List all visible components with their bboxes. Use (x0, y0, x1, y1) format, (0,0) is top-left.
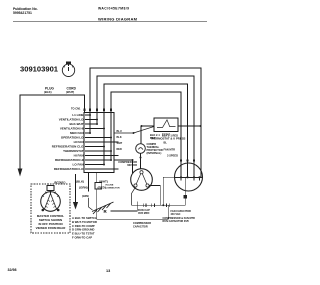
label cord colors (76, 180, 108, 190)
svg-text:309103901: 309103901 (20, 65, 59, 74)
node capacitor junction (162, 204, 164, 206)
selector switch terminals (42, 209, 45, 212)
inline connector (95, 183, 102, 190)
wire common return bottom (97, 205, 168, 219)
wire to wall receptacle with arrow (75, 174, 77, 203)
label fan motor (162, 134, 178, 158)
wire inline connector lead (96, 173, 98, 220)
svg-text:CAPACITOR: CAPACITOR (133, 225, 148, 228)
svg-text:13: 13 (106, 269, 110, 273)
connector pins above switch (84, 109, 112, 111)
svg-text:(BLK): (BLK) (44, 90, 52, 94)
svg-text:WAC/045E7M8/9: WAC/045E7M8/9 (98, 7, 129, 11)
svg-text:BL: BL (164, 141, 168, 145)
svg-text:RED: RED (117, 148, 122, 151)
svg-text:IN LINE: IN LINE (106, 184, 114, 186)
svg-text:35/5 MFD: 35/5 MFD (138, 211, 150, 215)
thermostat box (154, 118, 178, 132)
svg-text:440 VAC: 440 VAC (171, 213, 181, 216)
wire compressor R to capacitor (149, 186, 160, 206)
wire thermostat to overload (140, 126, 142, 144)
svg-text:WIRING DIAGRAM: WIRING DIAGRAM (98, 17, 138, 22)
svg-text:(WHT): (WHT) (66, 90, 74, 94)
label inline connector (106, 184, 120, 189)
wire thermostat left (142, 125, 155, 127)
svg-text:(INTERNAL): (INTERNAL) (147, 151, 162, 155)
switch terminal junction nodes (89, 114, 112, 166)
label compressor capacitor (133, 222, 151, 228)
legend wire color code (72, 216, 97, 240)
svg-text:VIEWED FROM REAR: VIEWED FROM REAR (36, 226, 67, 230)
svg-text:HI FAN: HI FAN (74, 154, 84, 158)
wire switch to thermostat (114, 127, 154, 134)
wire harness loop 1 (outermost) (90, 68, 201, 177)
svg-text:HI FAN: HI FAN (74, 140, 84, 144)
wire compressor S to capacitor (132, 187, 136, 205)
receptacle arrowhead (73, 202, 78, 210)
svg-text:BLK 2-1 RED: BLK 2-1 RED (162, 134, 178, 138)
thermostat contact symbol (157, 120, 176, 128)
plug arrowhead (18, 169, 23, 177)
node thermostat right junction (200, 125, 202, 127)
capacitor C1 line (132, 204, 186, 206)
label fan capacitor (163, 210, 196, 223)
svg-text:3 SPEED: 3 SPEED (167, 154, 178, 158)
svg-text:REFRIGERATION HI: REFRIGERATION HI (55, 158, 84, 162)
svg-text:VENTILATION HI: VENTILATION HI (60, 127, 84, 131)
svg-text:(GRN): (GRN) (79, 186, 88, 190)
selector switch pointer feathers (45, 200, 55, 207)
fan motor lead tags (180, 160, 195, 162)
wire harness loop 3 (104, 84, 188, 177)
capacitor C1 plates (143, 203, 169, 207)
svg-text:BLU: BLU (117, 130, 122, 133)
wire overload to compressor (140, 153, 142, 169)
svg-text:32/98: 32/98 (8, 268, 17, 272)
fan motor M (175, 163, 203, 191)
wire ground lead green (88, 173, 90, 192)
svg-text:OPERATION LO: OPERATION LO (61, 136, 84, 140)
wire harness loop 4 (111, 92, 181, 177)
selector switch pointer (45, 194, 57, 210)
svg-text:REFRIGERATION LO: REFRIGERATION LO (54, 167, 84, 171)
label plug cord (44, 87, 77, 95)
fan motor terminals (180, 176, 201, 178)
svg-text:TO CN1: TO CN1 (71, 107, 81, 111)
svg-text:LO FAN: LO FAN (73, 163, 84, 167)
label overload protector (147, 142, 163, 155)
svg-text:CONNECTOR: CONNECTOR (106, 187, 120, 189)
header rule (13, 21, 207, 23)
fan motor terminal stubs (181, 177, 200, 180)
fan motor terminal bar (175, 176, 203, 178)
svg-text:BLK-WHT: BLK-WHT (70, 122, 84, 126)
svg-text:F ORN-TO CAP: F ORN-TO CAP (72, 236, 92, 240)
timer icon (62, 62, 74, 77)
svg-text:RED: RED (150, 136, 156, 140)
svg-text:FAN MTR: FAN MTR (163, 148, 175, 152)
wire harness loop 2 (97, 76, 194, 177)
switch terminal wires (85, 115, 119, 169)
svg-text:REFRIGERATION CLG: REFRIGERATION CLG (52, 145, 84, 149)
label thermostat (151, 133, 186, 141)
svg-text:(WHT): (WHT) (99, 180, 108, 184)
svg-text:WHT: WHT (117, 142, 123, 145)
wire thermostat right (178, 125, 201, 127)
label master control switch legend (36, 214, 67, 230)
wire ground lead lower (89, 198, 93, 210)
svg-text:BLK: BLK (117, 136, 122, 139)
svg-text:(RED): (RED) (98, 186, 106, 190)
label wire colors near overload (150, 133, 160, 140)
wire switch to compressor (114, 160, 133, 173)
selector switch face (41, 186, 61, 212)
node fan motor bottom (184, 195, 188, 199)
svg-text:THERMOSTAT: THERMOSTAT (63, 149, 84, 153)
wire power cord with plug arrow (20, 95, 85, 169)
ground chassis symbol (92, 202, 114, 214)
svg-text:MED FAN: MED FAN (70, 131, 84, 135)
wire run terminal stub (111, 202, 138, 212)
label start relay (118, 160, 137, 167)
svg-text:5995421751: 5995421751 (13, 11, 32, 15)
selector switch detail box (31, 184, 70, 233)
overload protector OL (136, 144, 146, 154)
svg-text:RUN CAPACITOR 35/5: RUN CAPACITOR 35/5 (163, 220, 190, 223)
wire color tags right of switch (117, 130, 123, 151)
svg-text:MOTOR: MOTOR (127, 163, 137, 167)
switch S1 master control switch body (84, 113, 114, 173)
wire fan motor bottom lead (184, 177, 186, 205)
header publication number (13, 7, 38, 15)
svg-text:L1 LINE: L1 LINE (72, 113, 83, 117)
svg-text:(GRN): (GRN) (82, 195, 89, 198)
svg-text:VENTILATION LO: VENTILATION LO (59, 118, 84, 122)
switch terminal labels (52, 113, 84, 171)
selector switch detents (42, 192, 59, 197)
wire fan motor left lead (163, 177, 175, 205)
svg-text:(BLK): (BLK) (76, 180, 84, 184)
label run capacitor (138, 208, 150, 215)
compressor motor (131, 169, 153, 191)
